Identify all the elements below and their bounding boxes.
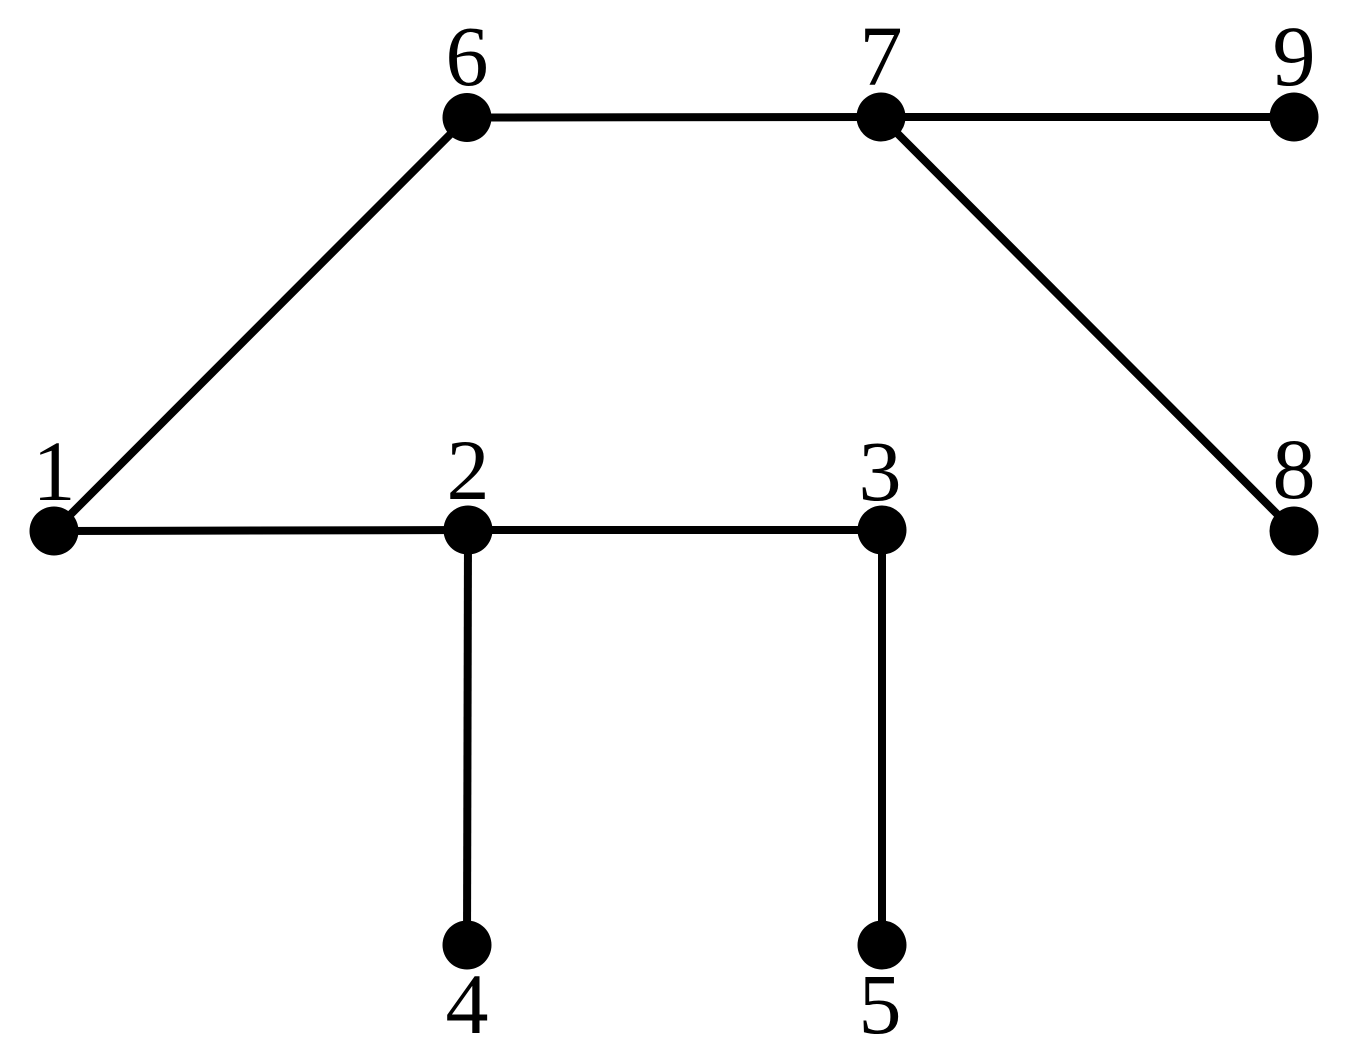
node 1 <box>30 423 79 556</box>
wire edge 7-8 <box>881 117 1294 531</box>
wire edge 3-5 <box>878 530 886 945</box>
svg-text:6: 6 <box>446 8 489 104</box>
svg-text:1: 1 <box>33 423 76 519</box>
svg-text:7: 7 <box>860 8 903 104</box>
node 9 <box>1270 8 1319 142</box>
node 5 <box>858 921 907 1053</box>
node 8 <box>1270 421 1319 556</box>
svg-text:5: 5 <box>859 956 902 1052</box>
node 2 <box>444 422 493 555</box>
node 4 <box>443 921 492 1053</box>
wire edge 1-6 <box>54 118 467 532</box>
wire edge 1-2 <box>54 530 468 531</box>
node 6 <box>443 8 492 142</box>
wire edge 6-7 <box>467 113 881 122</box>
svg-text:3: 3 <box>859 423 902 519</box>
svg-text:4: 4 <box>446 956 489 1052</box>
wire edge 7-9 <box>881 113 1294 121</box>
wire edge 2-3 <box>468 526 882 534</box>
svg-text:8: 8 <box>1273 421 1316 517</box>
svg-text:9: 9 <box>1273 8 1316 104</box>
svg-text:2: 2 <box>447 422 490 518</box>
node 3 <box>858 423 907 555</box>
wire edge 2-4 <box>467 530 468 945</box>
node 7 <box>857 8 906 142</box>
